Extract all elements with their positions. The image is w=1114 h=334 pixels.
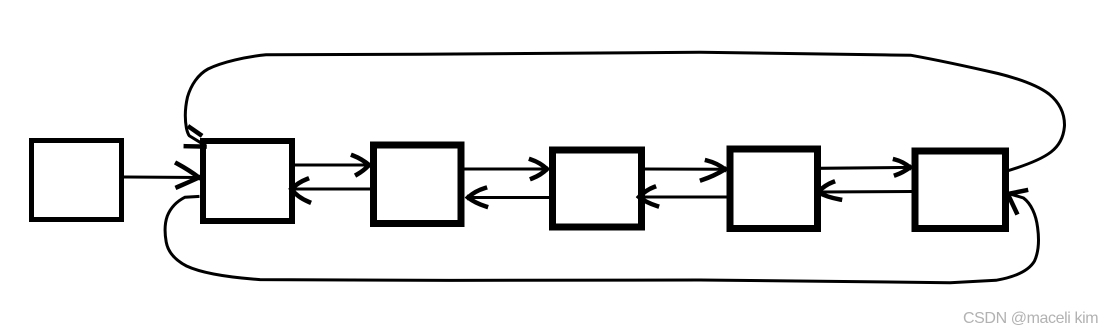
arrowhead into B6 left (forward)	[895, 160, 910, 176]
wire B5 to B6 forward	[820, 166, 908, 170]
arrowhead into B2 left	[177, 164, 199, 188]
node box B6	[915, 151, 1006, 229]
arrowhead into B3 right (backward)	[468, 188, 486, 207]
arrowhead into B2 right (backward)	[292, 179, 310, 202]
node box B5	[730, 149, 818, 229]
arrowhead into B3 left (forward)	[353, 156, 369, 175]
arrowhead into B5 left (forward)	[702, 161, 725, 181]
wire B1 to B2	[124, 176, 197, 180]
arrowhead into B4 left (forward)	[531, 160, 547, 179]
wire B4 to B3 backward	[470, 196, 549, 199]
bottom loop wire (B2 left to B6 right)	[165, 194, 1038, 283]
wire B6 to B5 backward	[820, 190, 911, 194]
top loop wire (B6 right to B2 top-left)	[185, 52, 1064, 171]
node box B2	[203, 141, 292, 221]
wire B5 to B4 backward	[641, 196, 726, 199]
wire B4 to B5 forward	[644, 168, 723, 171]
wire B3 to B2 backward	[293, 188, 370, 191]
svg-text:CSDN @maceli kim: CSDN @maceli kim	[963, 310, 1098, 327]
arrowhead into B5 right (backward)	[818, 182, 840, 200]
wire B3 to B4 forward	[463, 168, 545, 171]
arrowhead into B6 right (bottom loop end)	[1008, 190, 1026, 212]
node box B1 (head)	[32, 141, 122, 220]
wire B2 to B3 forward	[294, 164, 367, 167]
node box B3	[374, 145, 462, 224]
node box B4	[553, 150, 642, 227]
arrowhead into B4 right (backward)	[639, 187, 657, 206]
arrowhead into B2 top-left corner (top loop end)	[186, 127, 205, 146]
